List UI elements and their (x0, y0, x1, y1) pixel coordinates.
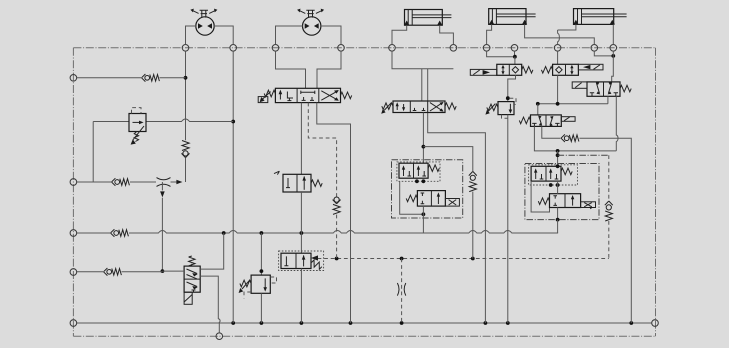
cylinder CYL2 (489, 9, 536, 25)
valve V10 (2-pos poppet, right) (541, 64, 603, 75)
junction dots on mid return line (222, 231, 226, 235)
wire motor M2 to ports (276, 26, 342, 44)
wire return branch down to RV2 (260, 233, 262, 275)
dashed enclosure box B1 (392, 160, 463, 218)
wire ports to valve V2 (276, 51, 342, 88)
wire V2 pilot (dashed) to check CK-M2 (308, 103, 336, 197)
wire right drain border (655, 48, 657, 336)
junction dots on tank return line (231, 321, 235, 325)
valve V7 (2-pos unloader) (274, 171, 322, 192)
wire V6a side loop (531, 181, 549, 212)
wire B2 outlet to return line (557, 220, 559, 233)
wire RV3 down to tank (507, 115, 509, 323)
wire bypass drain to tank (428, 113, 486, 324)
wire supply y=77.8 with check valve (77, 77, 141, 79)
wire cyl3 rod line down to valve V11 (612, 56, 614, 82)
wire V2 right-bottom to tank (317, 103, 351, 323)
wire V12 bottom-right to check CK-C3 (542, 126, 561, 138)
wire V11 bottom-left to manifold line y=104 (607, 96, 609, 104)
wire M1 left line down (185, 51, 187, 140)
check valve C-M1 (vertical, spring top) (182, 141, 190, 158)
node: tank return line (bottom solid) (77, 322, 652, 324)
valve V12 (2-pos directional) (519, 115, 575, 127)
wire down to valve V12 (537, 104, 539, 115)
wire B1 outlet to return (422, 206, 424, 233)
wire left drain border (72, 48, 74, 336)
wire CYL2 cap port (487, 24, 492, 44)
relief valve RV2 (239, 275, 277, 298)
wire RV2 to tank (260, 293, 262, 323)
wire CYL3 rod port (612, 24, 614, 44)
motor M2 (297, 9, 324, 36)
check valve CK-C1 (vertical) (469, 171, 477, 191)
valve V2 (4/3 directional) (258, 88, 352, 102)
valve V5a (counterbalance top) (397, 162, 440, 181)
wire motor M1 to ports (186, 26, 234, 44)
wire V4 out up to return (200, 233, 224, 269)
wire V5a side loop (400, 181, 424, 214)
wire branch to check CK-C1 (423, 147, 472, 171)
wire CYL2 rod port long line to cyl3 port (525, 24, 595, 44)
valve V5b (counterbalance bottom) (406, 191, 459, 207)
cylinder CYL1 (404, 10, 451, 26)
valve V11 (2-pos directional) (572, 82, 631, 96)
wire relief line y=121.5 (93, 119, 233, 122)
valve V9 (2-pos poppet, left) (470, 64, 533, 75)
dashed enclosure box B2 (525, 164, 599, 220)
wire supply y=272 with check valve (77, 271, 103, 273)
wire V3 down (422, 113, 424, 164)
wire CYL1 ports (392, 25, 453, 44)
wire V12 bottom-left to main vertical (534, 126, 616, 150)
valve V8 (2-pos, pilot operated) (279, 251, 324, 271)
check valve CK-M2 (vertical) (333, 197, 341, 214)
cylinder CYL3 (573, 9, 626, 25)
port circles bottom (216, 333, 223, 340)
wire supply y=182 with check valve and throttle (77, 181, 111, 183)
valve V6a (counterbalance top) (529, 165, 578, 185)
wire throttle branch into V4 (162, 270, 184, 272)
valve V3 (4/3 directional) (381, 101, 456, 114)
wire port3 down through valve V10 (557, 51, 559, 64)
wire: pilot drain (dashed) y=258.5 (318, 258, 609, 260)
relief valve RV3 (485, 98, 516, 118)
wire V10 through-line down (557, 75, 559, 104)
wire M1 right line down to tank (232, 51, 234, 323)
wire CYL3 cap port with hop (558, 24, 576, 44)
check valve on mid return line (111, 229, 129, 237)
wire V2 center down (300, 103, 302, 175)
port circles on centerline (182, 45, 189, 52)
motor M1 (190, 9, 217, 36)
port circles on left border (70, 75, 77, 82)
wire branch up from y=182 (92, 122, 94, 183)
node: top drain centerline (dash-dot) (73, 47, 655, 49)
valve V6b (counterbalance bottom) (538, 194, 595, 209)
wire branch down from throttle (161, 182, 163, 271)
throttle TH1 on pilot drain (401, 259, 403, 324)
relief valve RV1 (129, 108, 146, 145)
wire CYL2 ports join to valve (487, 51, 515, 57)
wire bottom drain border (73, 335, 655, 337)
node: mid return line y=233 with crossing hops (77, 232, 110, 234)
wire main vertical into manifold B2 (557, 151, 559, 166)
throttle (flow control) on y=182 (157, 178, 171, 187)
wire ports to valve V3 (392, 51, 453, 101)
valve V4 (vertical 2-pos) (184, 256, 200, 304)
wire V9 down to RV3 (508, 75, 516, 101)
wire pilot dash-dot to right check (558, 154, 609, 156)
check valve CK-P (vertical) (605, 201, 613, 221)
check valve CK-C3 (horizontal with spring) (561, 134, 579, 142)
wire V4 drain to bottom port (200, 276, 220, 333)
wire through main vertical in B2 (557, 181, 559, 220)
wire V11 bottom-right down with hop (616, 96, 618, 151)
